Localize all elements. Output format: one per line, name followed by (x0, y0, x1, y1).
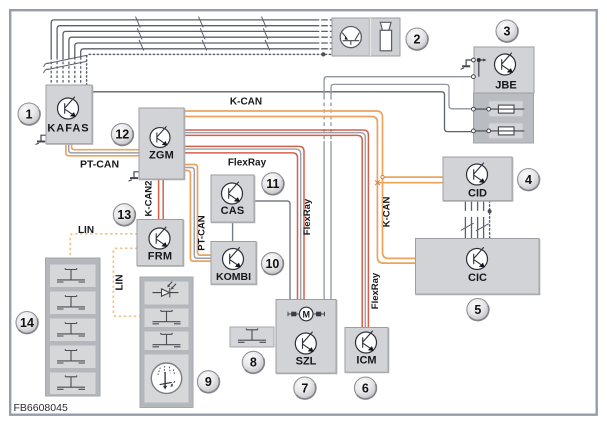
svg-text:FRM: FRM (148, 251, 172, 263)
fuse 1 in JBE (472, 101, 525, 117)
wire CAS to KOMBI link (232, 222, 234, 242)
wire PT-CAN ZGM to KOMBI orange inner (184, 171, 212, 262)
wire PT-CAN KAFAS to ZGM gray (69, 143, 140, 153)
wire FlexRay ZGM to SZL red bottom (184, 153, 298, 300)
label LIN horizontal (78, 225, 94, 236)
wire KAFAS camera bus line 4 (69, 37, 332, 85)
svg-text:9: 9 (205, 375, 212, 389)
JBE terminal circles and link (472, 58, 487, 79)
svg-text:LIN: LIN (115, 274, 126, 290)
svg-text:KAFAS: KAFAS (47, 123, 89, 135)
svg-text:CAS: CAS (221, 205, 245, 217)
svg-text:JBE: JBE (495, 80, 516, 92)
node 14 (16, 312, 38, 334)
svg-text:PT-CAN: PT-CAN (80, 159, 119, 171)
wire FlexRay ZGM to SZL gray (184, 149, 301, 300)
light switch cluster box 9 (140, 277, 193, 408)
svg-text:6: 6 (362, 381, 369, 395)
fuse 2 in JBE (472, 123, 525, 139)
wire KAFAS camera bus line 1 (51, 20, 332, 85)
svg-text:FlexRay: FlexRay (302, 198, 313, 235)
wire PT-CAN ZGM to KOMBI gray (184, 168, 212, 259)
camera box 2 (332, 18, 400, 56)
node 11 (262, 173, 284, 195)
label PT-CAN vertical (197, 215, 208, 251)
svg-text:14: 14 (20, 316, 34, 330)
module CIC (416, 239, 540, 295)
module SZL (276, 300, 337, 374)
washer bottle icon (380, 22, 391, 30)
svg-text:LIN: LIN (78, 225, 94, 236)
wire KAFAS camera dotted line (87, 52, 332, 85)
svg-text:1: 1 (26, 107, 33, 121)
svg-text:ICM: ICM (356, 355, 376, 367)
svg-text:SZL: SZL (296, 356, 317, 368)
svg-text:FB6608045: FB6608045 (14, 402, 68, 414)
node 5 (467, 299, 489, 321)
wire KAFAS camera bus line 6 (81, 49, 332, 85)
wire KAFAS camera bus line 5 (75, 43, 332, 85)
wire FlexRay ZGM to ICM gray (184, 133, 365, 328)
svg-text:CID: CID (468, 188, 487, 200)
node 2 (406, 28, 428, 50)
module ZGM (139, 108, 185, 179)
label K-CAN2 vertical (144, 181, 155, 217)
wire hatch marks CID-CIC (461, 223, 489, 231)
node 10 (261, 253, 283, 275)
svg-text:ZGM: ZGM (149, 150, 174, 162)
wire K-CAN branch to CID lower (375, 180, 443, 185)
svg-text:FlexRay: FlexRay (228, 158, 267, 169)
wire interruption gaps near camera box (319, 18, 329, 51)
motor M in SZL (288, 313, 325, 315)
camera lens icon (340, 26, 361, 47)
svg-text:K-CAN: K-CAN (230, 97, 262, 108)
label FB6608045 (14, 402, 68, 414)
wire K-CAN2 ZGM to FRM red pair (159, 179, 164, 220)
module CAS (211, 175, 255, 222)
svg-text:K-CAN2: K-CAN2 (144, 181, 155, 217)
label FlexRay vertical at ICM (370, 272, 381, 309)
wire KAFAS camera bus line 3 (63, 31, 332, 85)
node 6 (354, 377, 376, 399)
node 9 (197, 371, 219, 393)
node 8 (242, 351, 264, 373)
svg-text:PT-CAN: PT-CAN (197, 215, 208, 251)
svg-text:13: 13 (117, 208, 131, 222)
stalk switch box 8 (230, 327, 274, 347)
module JBE with fuse section (474, 47, 535, 143)
label FlexRay vertical at SZL (302, 198, 313, 235)
ground at JBE (461, 60, 472, 69)
wire KAFAS camera bus line 2 (57, 26, 332, 85)
svg-text:5: 5 (474, 303, 481, 317)
svg-text:11: 11 (266, 177, 279, 191)
node 13 (113, 204, 135, 226)
node 12 (111, 123, 133, 145)
node 7 (294, 377, 316, 399)
node 4 (518, 169, 540, 191)
node 1 (18, 103, 40, 125)
svg-text:CIC: CIC (468, 272, 487, 284)
ground at KAFAS (36, 135, 47, 144)
ground at ZGM (129, 172, 140, 181)
svg-text:10: 10 (265, 257, 279, 271)
rain-light sensor icon (151, 363, 181, 393)
svg-text:K-CAN: K-CAN (382, 197, 393, 228)
label PT-CAN (80, 159, 119, 171)
label K-CAN top (230, 97, 262, 108)
wire K-CAN ZGM to CID/CIC orange bottom (184, 117, 416, 264)
label K-CAN vertical (382, 197, 393, 228)
svg-text:2: 2 (414, 32, 421, 46)
wire PT-CAN KAFAS to ZGM orange inner (72, 143, 140, 150)
svg-text:M: M (302, 310, 310, 320)
wire FlexRay ZGM to ICM red top (184, 130, 368, 328)
wire hatch marks on camera bus (136, 17, 270, 51)
module CID (443, 157, 513, 201)
wire LIN FRM to light switch 9 (113, 248, 140, 316)
wire KAFAS to JBE fuse 2 (92, 92, 472, 132)
svg-text:4: 4 (525, 173, 532, 187)
module KAFAS (46, 85, 93, 144)
wire LIN FRM to switch cluster 14 (70, 234, 137, 258)
wire PT-CAN ZGM to KOMBI orange outer (184, 165, 212, 256)
wire CAS to SZL (254, 201, 290, 300)
svg-text:KOMBI: KOMBI (216, 271, 251, 283)
label FlexRay horizontal (228, 158, 267, 169)
wire hatch marks near KAFAS top (44, 55, 87, 73)
node 3 (496, 20, 518, 42)
module ICM (345, 328, 389, 373)
wire FlexRay ZGM to ICM red bottom (184, 135, 362, 328)
module FRM (137, 220, 184, 266)
svg-text:12: 12 (115, 128, 129, 142)
svg-text:8: 8 (250, 356, 257, 370)
wire CID to CIC dotted line (488, 201, 492, 239)
light sensor icon (153, 282, 179, 298)
label LIN vertical (115, 274, 126, 290)
wire JBE to SZL (dashed vertical) (324, 77, 479, 300)
wire JBE fuse 1 to SZL (dashed vertical) (331, 84, 472, 299)
svg-text:3: 3 (504, 24, 511, 38)
wire PT-CAN KAFAS to ZGM orange outer (66, 143, 140, 156)
switch cluster box 14 (46, 258, 101, 396)
wire K-CAN branch to CID upper (381, 175, 444, 178)
wire CID to CIC antenna lines (465, 201, 483, 239)
module KOMBI (211, 242, 257, 285)
svg-text:7: 7 (301, 381, 308, 395)
svg-text:FlexRay: FlexRay (370, 272, 381, 309)
wire K-CAN ZGM to CID/CIC orange top (184, 111, 416, 258)
wire FlexRay ZGM to SZL red top (184, 146, 304, 300)
